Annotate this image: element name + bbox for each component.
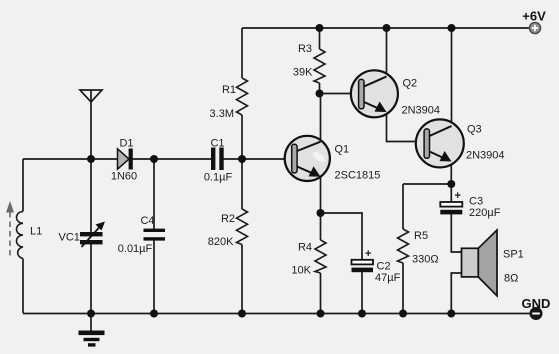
svg-text:+: + <box>455 190 461 202</box>
node Q1 base drive <box>316 90 324 98</box>
wire Q2 emitter to Q3 base <box>387 112 425 142</box>
resistor R4 <box>315 240 326 273</box>
wire Q1 emitter to node <box>320 176 322 213</box>
svg-text:C4: C4 <box>140 215 154 227</box>
svg-text:R1: R1 <box>222 84 236 96</box>
node antenna <box>87 155 95 163</box>
svg-text:R3: R3 <box>298 43 312 55</box>
svg-text:+: + <box>365 248 371 260</box>
node Q3 emitter <box>447 180 455 188</box>
node Q1 emitter <box>317 209 325 217</box>
node dots <box>87 24 456 318</box>
wire C2 bottom <box>361 272 363 314</box>
wire Q1 collector <box>320 94 322 142</box>
svg-text:0.1µF: 0.1µF <box>204 172 233 184</box>
wire node to C2 <box>321 213 363 260</box>
svg-text:0.01µF: 0.01µF <box>118 243 153 255</box>
capacitor C2 <box>352 248 374 272</box>
svg-text:820K: 820K <box>208 236 234 248</box>
wire bottom rail <box>23 313 531 315</box>
svg-text:C3: C3 <box>469 196 483 208</box>
wire top rail +6V <box>242 27 530 29</box>
svg-text:C2: C2 <box>377 261 391 273</box>
wire C4 column <box>153 159 155 229</box>
node C1 out <box>238 155 246 163</box>
antenna <box>80 90 102 102</box>
svg-text:220µF: 220µF <box>469 207 501 219</box>
transistor Q1 <box>285 136 330 181</box>
svg-text:2N3904: 2N3904 <box>466 150 505 162</box>
node bottom R5 <box>399 310 407 318</box>
transistor Q3 <box>416 119 464 167</box>
node bottom C4 <box>150 310 158 318</box>
node bottom R2 <box>238 310 246 318</box>
wire Q2 base <box>320 93 359 95</box>
svg-text:R2: R2 <box>221 213 235 225</box>
wire C3 leads <box>450 184 452 202</box>
svg-text:8Ω: 8Ω <box>504 273 518 285</box>
svg-text:R5: R5 <box>414 230 428 242</box>
node bottom C2 <box>358 310 366 318</box>
svg-text:10K: 10K <box>291 265 311 277</box>
svg-text:1N60: 1N60 <box>111 171 137 183</box>
wire R5 column <box>402 184 404 229</box>
capacitor C4 <box>144 229 166 232</box>
node bottom SP1 <box>447 310 455 318</box>
resistor R1 <box>237 78 248 115</box>
resistor R5 <box>398 229 409 263</box>
svg-text:D1: D1 <box>119 138 133 150</box>
svg-text:Q2: Q2 <box>403 78 418 90</box>
svg-text:330Ω: 330Ω <box>412 254 439 266</box>
variable capacitor VC1 <box>80 232 103 236</box>
svg-text:3.3M: 3.3M <box>210 108 234 120</box>
svg-text:SP1: SP1 <box>503 249 524 261</box>
resistor R3 <box>314 49 325 83</box>
inductor L1 <box>16 212 23 259</box>
capacitor C3 <box>440 190 462 214</box>
ground <box>90 314 92 331</box>
wire R1/R2 column <box>241 28 243 78</box>
node top rail Q3 <box>448 24 456 32</box>
wire Q3 emitter to node <box>450 161 452 184</box>
capacitor C1 <box>211 148 215 171</box>
svg-text:Q3: Q3 <box>467 124 482 136</box>
wire speaker bottom lead <box>451 273 461 313</box>
svg-text:Q1: Q1 <box>335 144 350 156</box>
wire VC1 column <box>90 159 92 232</box>
node top rail Q2 <box>383 24 391 32</box>
wire node to R5 <box>403 183 451 185</box>
svg-text:L1: L1 <box>30 226 42 238</box>
svg-text:2SC1815: 2SC1815 <box>335 170 381 182</box>
+6V terminal <box>529 22 540 33</box>
wire Q2 collector <box>386 28 388 75</box>
wire left column L1 <box>22 159 24 212</box>
node bottom VC1 <box>87 310 95 318</box>
svg-text:2N3904: 2N3904 <box>402 105 441 117</box>
svg-text:GND: GND <box>522 296 551 311</box>
resistor R2 <box>237 209 248 245</box>
node D1 out <box>150 155 158 163</box>
wire R3 column <box>319 28 321 49</box>
transistor Q2 <box>351 70 398 117</box>
diode D1 <box>118 149 130 169</box>
wire horizontal signal row y=159 <box>23 158 212 160</box>
svg-text:39K: 39K <box>293 67 313 79</box>
svg-text:R4: R4 <box>298 242 312 254</box>
svg-text:VC1: VC1 <box>59 232 80 244</box>
L1 dashed arrow <box>9 212 11 258</box>
node top rail R3 <box>316 24 324 32</box>
svg-text:+6V: +6V <box>522 9 546 24</box>
wire Q3 collector <box>451 28 453 125</box>
svg-text:47µF: 47µF <box>375 272 401 284</box>
wire R4 column <box>320 213 322 240</box>
node bottom R4 <box>317 310 325 318</box>
GND terminal <box>530 308 542 320</box>
speaker SP1 <box>462 230 498 296</box>
svg-text:C1: C1 <box>210 138 224 150</box>
